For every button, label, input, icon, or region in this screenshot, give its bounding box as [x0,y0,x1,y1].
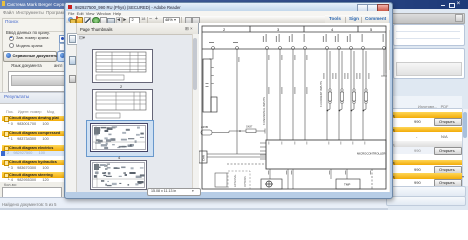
dashed option wire [227,163,266,165]
wire U1 to temp sensor [330,169,332,179]
terminal X2 [236,47,239,50]
svg-text:3: 3 [277,27,280,32]
component U3 aux block [211,97,217,112]
svg-text:5: 5 [370,27,373,32]
junction dot J4 [363,110,365,112]
svg-text:24VB: 24VB [201,125,208,129]
results section [0,92,68,104]
wire pair current input 2 [339,49,342,140]
thumbnail 2 [92,89,153,121]
svg-text:OPTIONS: OPTIONS [244,176,247,187]
language row [11,63,42,68]
resistor R1 5A [240,129,265,134]
panel scrollbar [192,34,199,192]
row 3 [2,145,68,151]
junction dot J3 [351,110,353,112]
right table body background [384,109,462,186]
title bar [66,3,389,11]
results table [0,103,68,182]
wire U1 down e [346,169,348,179]
drawing frame [202,26,386,189]
wire universal input 3 [292,49,294,140]
junction node A [239,130,241,132]
right table header [390,96,462,109]
junction dot J2 [339,110,341,112]
section divider 2 [303,26,305,32]
selected sub-row [2,151,68,157]
adobe window buttons [357,4,368,12]
CAN transceiver U4 [199,151,207,163]
radio selected [9,36,14,41]
terminal X7 [326,47,329,50]
language list box [8,71,70,92]
component U2 input module [203,59,211,112]
wire from terminal X11 with terminator [381,49,387,76]
terminal X11 [383,47,386,50]
toolbar [66,16,389,24]
terminal X6 [304,47,307,50]
temp sensor B1 TMP [336,179,360,189]
svg-text:SK87: SK87 [246,125,253,129]
terminal X9 [350,47,353,50]
group rule [40,31,64,32]
svg-text:TMP: TMP [344,183,350,187]
right row 4 [384,160,462,166]
terminal X1 [212,47,215,50]
wire U1 down b [287,169,289,189]
fuse F4 [364,89,367,104]
wire from terminal X2 (long vertical) [236,49,238,154]
pin stubs left of U1 [260,143,266,159]
wire universal input 1 [266,49,268,140]
toolbar icons [68,17,73,22]
section divider 3 [357,26,359,32]
svg-text:4 CURRENT INPUTS: 4 CURRENT INPUTS [319,81,323,107]
right row 1 [384,112,462,118]
right row 2 [384,127,462,133]
fuse F1 [328,89,331,104]
terminal X10 [362,47,365,50]
wire U1 to horn H1 [269,169,271,179]
thumbnail 3 selected [86,120,154,157]
wire labels above terminals [209,34,384,43]
battery G1 24VBAT [201,130,212,135]
right bottom boxes [386,186,466,197]
junction dot J1 [327,110,329,112]
doc vertical scrollbar [389,23,391,192]
svg-text:CAN: CAN [202,155,206,161]
left app menu bar [0,9,68,17]
right inputs [392,13,465,24]
terminal X8 [338,47,341,50]
page size tooltip [147,188,201,197]
radio unselected [9,43,14,48]
thumbnails panel [77,23,199,192]
CAN bus wire pair [207,154,266,157]
app title bar (full width, behind) [0,0,468,10]
Tools Sign Comment [325,15,389,23]
row 5 [2,172,68,178]
title band top line [202,31,386,33]
wire battery to junction [212,131,240,133]
wire universal input 4 [304,49,306,140]
fuse F3 [352,89,355,104]
svg-text:EXTERNAL: EXTERNAL [234,174,237,187]
left app body [0,17,68,203]
option block M1 [215,173,227,187]
wire pair current input 1 [327,49,330,140]
wire universal input 2 [279,49,281,140]
pin number labels under U1 [268,171,371,175]
service documents button [3,51,57,62]
external options dashed box [228,171,250,189]
svg-text:MICROCONTROLLER: MICROCONTROLLER [357,152,385,156]
window frame [64,2,393,199]
svg-text:4: 4 [331,27,334,32]
top bus wire [202,48,386,50]
right scrollbar [462,109,468,186]
bottom input of left app [4,183,17,187]
terminal X3 [266,47,269,50]
row 2 [2,131,68,137]
wires below U1 [270,169,347,189]
wire U1 down c [292,169,294,189]
thumbnail 4 [90,160,147,190]
terminal X4 [279,47,282,50]
svg-text:2: 2 [223,27,226,32]
component U2 label and pin ticks [206,57,240,87]
horn H1 [261,179,282,189]
microcontroller U1 [266,140,386,169]
nav icon strip [66,23,77,192]
right row 3 (selected) [384,141,462,147]
menu bar [66,11,389,16]
section divider 1 [249,26,251,32]
right row 5 [384,173,462,179]
thumbnail 1 [92,49,153,83]
fuse F2 [340,89,343,104]
wire pair current input 4 [363,49,366,140]
dashed wire U1 down right [371,169,373,189]
pin number labels on input wires [269,55,387,94]
window buttons top right (glyphs on navy title) [441,5,445,6]
pin number labels inside U1 top edge [269,142,366,145]
wire pair current input 3 [351,49,354,140]
svg-text:4 UNIVERSAL INPUTS: 4 UNIVERSAL INPUTS [262,97,266,125]
row 1 [2,116,68,122]
terminal X5 [292,47,295,50]
wire from terminal X1 [209,49,213,59]
row 4 [2,160,68,166]
